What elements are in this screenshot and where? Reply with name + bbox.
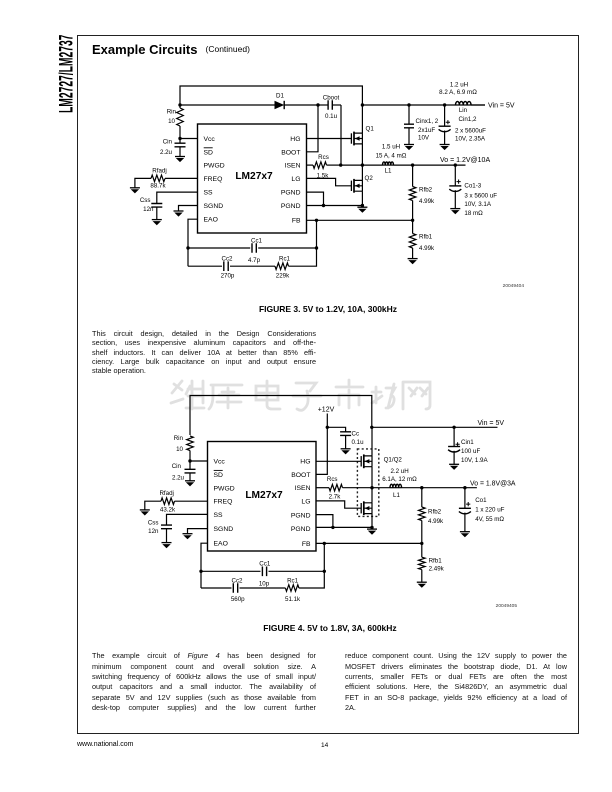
wire SGND to ground (fig4) [188,529,208,534]
svg-text:4.7p: 4.7p [248,257,261,264]
svg-text:229k: 229k [276,272,290,279]
ground for Cin1 (fig4) [449,463,459,465]
capacitor Cc1 4.7p (fig3) [188,247,250,249]
svg-text:Rfadj: Rfadj [159,490,173,497]
svg-text:51.1k: 51.1k [285,596,301,603]
wire input rail to Vin (fig3) [362,104,485,106]
wire Q1 source to SW (fig4) [371,467,373,488]
svg-text:PGND: PGND [281,203,301,210]
watermark chinese text weiku dianzi shichang wang [171,380,430,410]
svg-text:10: 10 [176,446,183,453]
node input/Rin junction (fig3) [178,103,181,106]
node FB/comp junction (fig3) [315,219,318,222]
ground for Rfadj (fig3) [130,187,140,189]
ground power ground (fig4) [367,528,377,530]
node FB/comp junction (fig4) [323,542,326,545]
wire Q2 drain (fig4) [371,488,373,503]
svg-text:Rcs: Rcs [327,476,338,483]
resistor Rcs 1.5k on ISEN (fig3) [307,164,314,166]
ground for Rfadj (fig4) [140,509,150,511]
svg-text:10: 10 [168,118,175,125]
ground for Cin (fig3) [175,156,185,158]
capacitor Cc1 10p (fig4) [201,570,261,572]
svg-text:18 mΩ: 18 mΩ [464,210,483,217]
page frame border [77,35,580,734]
wire Q2 drain (fig3) [361,165,363,180]
wire SGND to ground (fig3) [179,206,198,212]
wire EAO to compensation (fig4) [201,543,208,588]
wire Cboot to switch node [340,105,342,165]
wire EAO to compensation (fig3) [188,219,198,266]
resistor Rfb2 4.99k (fig4) [421,488,423,507]
wire BOOT riser to pin [307,105,319,152]
svg-text:ISEN: ISEN [295,485,311,492]
ground for Cin (fig4) [185,480,195,482]
ground for Co1-3 (fig3) [450,208,460,210]
node Q2 source ground (fig4) [370,526,373,529]
svg-text:2 x 5600uF: 2 x 5600uF [455,128,486,135]
svg-text:LM2727/LM2737: LM2727/LM2737 [56,35,77,113]
wire switch node (fig3) [341,164,383,166]
wire D1 cathode to BOOT node [284,104,318,106]
transistor Q1 (fig4) [360,456,362,466]
resistor Rin 10 (fig4) [187,436,194,451]
resistor Rc1 229k (fig3) [275,263,289,270]
wire LG to Q2 gate (fig4) [316,501,361,508]
svg-text:SS: SS [214,512,224,519]
node PGND jog (fig3) [322,204,325,207]
svg-text:100 uF: 100 uF [461,448,480,455]
ground for Css (fig4) [162,542,172,544]
wire PGND upper jog (fig4) [316,515,333,528]
svg-text:Q1/Q2: Q1/Q2 [384,456,403,463]
resistor Rfadj 88.7k (fig3) [165,177,198,179]
svg-text:Co1-3: Co1-3 [464,182,481,189]
wire Vo output (fig4) [402,487,477,489]
svg-text:SGND: SGND [214,526,234,533]
svg-text:270p: 270p [221,272,235,279]
svg-text:FB: FB [292,217,301,224]
svg-text:PWGD: PWGD [214,485,235,492]
footer url [77,741,133,748]
ground for SGND (fig3) [174,210,184,212]
svg-text:10V, 1.9A: 10V, 1.9A [461,457,488,464]
svg-text:Css: Css [148,519,159,526]
resistor Rcs 2.7k on ISEN (fig4) [316,487,329,489]
capacitor Css 12n (fig4) [167,514,208,525]
svg-text:L1: L1 [393,492,400,499]
node Cinx tap (fig3) [407,103,410,106]
svg-text:43.2k: 43.2k [160,506,176,513]
inductor Lin 1.2uH (fig3) [456,102,472,106]
capacitor Cin 2.2u (fig4) [189,461,191,469]
wire Vcc pin (fig3) [180,138,198,140]
figure 4 caption [77,623,583,633]
IC U2 LM27x7 (fig4) [208,442,317,552]
wire input rail top loop (fig3) [180,86,362,105]
node comp junction at Cc1 right (fig3) [315,246,318,249]
figure 3 caption [77,304,579,314]
svg-text:LG: LG [301,498,310,505]
svg-text:Rfadj: Rfadj [152,168,166,175]
svg-text:Cin1,2: Cin1,2 [459,116,477,123]
svg-text:Rfb1: Rfb1 [429,558,443,565]
svg-text:Rin: Rin [167,109,177,116]
svg-text:FREQ: FREQ [214,499,233,506]
wire Q1 source to switch node (fig3) [361,144,363,165]
svg-text:Q2: Q2 [365,175,374,182]
wire D1/Cboot branch from input rail (fig3) [180,104,275,106]
svg-text:88.7k: 88.7k [150,183,166,190]
wire Vin rail (fig4) [372,426,498,428]
capacitor Cc 0.1u (fig4) [327,427,345,432]
wire SW to L1 (fig4) [372,487,390,489]
diode D1 [275,101,285,109]
node Vin rail (fig4) [370,426,373,429]
ground for Rfb1 (fig3) [408,258,418,260]
wire LG to Q2 gate (fig3) [307,178,352,185]
node Cin1,2 tap (fig3) [443,103,446,106]
svg-text:2.2 uH: 2.2 uH [390,468,408,475]
ground power ground (fig3) [357,206,367,208]
svg-text:SD: SD [214,472,224,479]
wire Q1 drain (fig4) [371,427,373,456]
svg-text:10V: 10V [418,135,430,142]
svg-text:0.1u: 0.1u [352,439,365,446]
node Vcc/Cin junction (fig4) [188,459,191,462]
capacitor Cc2 270p (fig3) [188,265,222,267]
wire Vin top loop from Rin (fig4) [190,396,372,436]
svg-text:Cc1: Cc1 [259,560,271,567]
node Co1-3 tap (fig3) [454,163,457,166]
svg-text:1.2 uH: 1.2 uH [450,82,468,89]
svg-text:EAO: EAO [204,217,218,224]
wire Q2 source to ground (fig4) [371,514,373,528]
svg-text:Cc2: Cc2 [231,577,243,584]
svg-text:Vcc: Vcc [204,136,216,143]
svg-text:SS: SS [204,190,214,197]
svg-text:12n: 12n [148,528,159,535]
svg-text:BOOT: BOOT [291,472,310,479]
capacitor Cboot 0.1u [318,104,328,106]
svg-text:Rfb1: Rfb1 [419,233,433,240]
svg-text:2.7k: 2.7k [329,493,342,500]
svg-text:10V, 3.1A: 10V, 3.1A [464,201,491,208]
svg-text:0.1u: 0.1u [325,113,338,120]
section title Example Circuits [92,42,198,57]
svg-text:FREQ: FREQ [204,176,223,183]
paragraph about figure 3 [92,330,316,338]
svg-text:Rin: Rin [174,435,184,442]
svg-text:10p: 10p [259,580,270,587]
resistor Rfadj 43.2k (fig4) [175,500,208,502]
wire FB (fig3) [307,219,413,221]
svg-text:Vcc: Vcc [214,459,226,466]
svg-text:D1: D1 [276,93,284,100]
wire +12V rail to BOOT (fig4) [316,414,327,475]
svg-text:SGND: SGND [204,203,224,210]
svg-text:Cc1: Cc1 [251,237,263,244]
svg-text:8.2 A, 6.9 mΩ: 8.2 A, 6.9 mΩ [439,89,477,96]
capacitor Co1-3 3x5600uF (fig3) [454,165,456,186]
svg-text:PGND: PGND [291,512,311,519]
svg-text:FB: FB [302,541,311,548]
bottom text right column [345,652,567,660]
capacitor Css 12n (fig3) [157,192,198,203]
svg-text:2.49k: 2.49k [429,566,445,573]
node +12V / Cc tap (fig4) [326,426,329,429]
svg-text:Rc1: Rc1 [279,255,291,262]
inductor L1 2.2uH (fig4) [390,484,402,488]
wire HG to Q1 gate (fig3) [307,138,352,140]
svg-text:LM27x7: LM27x7 [245,490,283,501]
resistor Rin 10 (fig3) [179,105,181,108]
svg-text:Cinx1, 2: Cinx1, 2 [416,118,439,125]
ground for Rfb1 (fig4) [417,581,427,583]
ground for Css (fig3) [152,219,162,221]
transistor Q2 (fig3) [350,181,352,191]
ground for Cin1,2 (fig3) [440,144,450,146]
svg-text:Cin: Cin [163,138,173,145]
svg-text:Cin1: Cin1 [461,439,474,446]
svg-text:LG: LG [291,176,300,183]
svg-text:BOOT: BOOT [281,149,300,156]
transistor Q1 (fig3) [350,133,352,143]
capacitor Cc2 560p (fig4) [201,587,232,589]
node Q1 drain / input rail (fig3) [361,103,364,106]
svg-text:Cc: Cc [352,430,360,437]
wire Q2 source to PGND rail (fig3) [361,191,363,205]
svg-text:Vin = 5V: Vin = 5V [478,420,505,427]
wire Vo output (fig3) [394,164,466,166]
svg-text:PGND: PGND [281,190,301,197]
wire HG to Q1 gate (fig4) [316,460,361,462]
svg-text:2.2u: 2.2u [160,149,173,156]
node EAO/Cc1 branch (fig3) [186,246,189,249]
sidebar part number LM2727/LM2737 [56,35,77,113]
svg-text:PGND: PGND [291,526,311,533]
figure 4 doc id [437,604,517,609]
capacitor Co1 220uF (fig4) [464,488,466,509]
node FB/divider junction (fig3) [411,219,414,222]
svg-text:LM27x7: LM27x7 [235,171,273,182]
footer page number 14 [321,742,328,749]
svg-text:3 x 5600 uF: 3 x 5600 uF [464,193,497,200]
svg-text:L1: L1 [385,168,392,175]
node SW at Q1/Q2 (fig4) [370,486,373,489]
node SW at Q1/Q2 (fig3) [361,163,364,166]
svg-text:PWGD: PWGD [204,163,225,170]
node FB/divider junction (fig4) [420,542,423,545]
wire PGND rail (fig4) [316,526,372,528]
svg-text:4V, 55 mΩ: 4V, 55 mΩ [475,516,504,523]
IC U1 LM27x7 (fig3) [198,124,307,233]
ground for Cinx (fig3) [404,144,414,146]
node Vo/Rfb2 tap (fig4) [420,486,423,489]
svg-text:+12V: +12V [318,407,335,414]
svg-text:Cboot: Cboot [323,94,340,101]
resistor Rfb1 4.99k (fig3) [412,220,414,233]
svg-text:Vin = 5V: Vin = 5V [488,102,515,109]
capacitor Cin 2.2u (fig3) [179,139,181,144]
capacitor Cin1 100uF (fig4) [453,427,455,446]
wire Vcc pin (fig4) [190,460,208,462]
node EAO/Cc1 branch (fig4) [199,570,202,573]
svg-text:4.99k: 4.99k [419,245,435,252]
svg-text:1.5 uH: 1.5 uH [382,143,400,150]
svg-text:10V, 2.35A: 10V, 2.35A [455,136,486,143]
svg-text:Cin: Cin [172,463,182,470]
node Vcc/Cin junction (fig3) [178,137,181,140]
svg-text:Q1: Q1 [366,125,375,132]
resistor Rfb1 2.49k (fig4) [421,543,423,557]
wire Q1 drain (fig3) [361,105,363,133]
svg-text:Rfb2: Rfb2 [419,186,433,193]
svg-text:4.99k: 4.99k [419,198,435,205]
transistor Q2 (fig4) [360,503,362,513]
node PGND jog (fig4) [331,526,334,529]
svg-text:Vo = 1.2V@10A: Vo = 1.2V@10A [440,157,490,164]
svg-text:Vo = 1.8V@3A: Vo = 1.8V@3A [470,480,516,487]
wire PGND upper jog (fig3) [307,192,324,205]
svg-text:2x1uF: 2x1uF [418,127,435,134]
svg-text:15 A, 4 mΩ: 15 A, 4 mΩ [376,153,407,160]
svg-text:1 x 220 uF: 1 x 220 uF [475,507,504,514]
svg-text:Cc2: Cc2 [221,255,233,262]
svg-text:Rfb2: Rfb2 [428,509,442,516]
svg-text:2.2u: 2.2u [172,474,185,481]
svg-text:12n: 12n [143,206,154,213]
bottom text left column [92,652,316,660]
inductor L1 1.5uH (fig3) [383,162,394,165]
svg-text:560p: 560p [231,596,245,603]
ground for Co1 (fig4) [460,531,470,533]
figure 3 doc id [444,284,524,289]
capacitor Cin1,2 2x5600uF (fig3) [444,105,446,126]
wire PGND rail (fig3) [307,205,363,207]
svg-text:SD: SD [204,149,214,156]
svg-text:Css: Css [140,197,151,204]
node Cboot/switch junction (fig3) [339,163,342,166]
resistor Rfb2 4.99k (fig3) [412,165,414,186]
svg-text:Rc1: Rc1 [287,577,299,584]
svg-text:4.99k: 4.99k [428,518,444,525]
svg-text:Co1: Co1 [475,497,487,504]
resistor Rc1 51.1k (fig4) [285,585,299,592]
dual FET dashed outline Q1/Q2 (fig4) [357,449,378,517]
ground for Cc (fig4) [341,448,351,450]
svg-text:HG: HG [290,136,300,143]
node Co1 tap (fig4) [463,486,466,489]
node Cin1 tap (fig4) [452,426,455,429]
ground for SGND (fig4) [183,533,193,535]
wire FB (fig4) [316,542,422,544]
svg-text:Rcs: Rcs [318,154,329,161]
svg-text:ISEN: ISEN [285,163,301,170]
node Q2 source ground (fig3) [361,204,364,207]
node Vo/Rfb2 tap (fig3) [411,163,414,166]
capacitor Cinx1,2 2x1uF (fig3) [408,105,410,124]
node comp junction at Cc1 right (fig4) [323,570,326,573]
svg-text:Lin: Lin [459,107,468,114]
svg-text:6.1A, 12 mΩ: 6.1A, 12 mΩ [382,476,417,483]
svg-text:HG: HG [300,459,310,466]
node BOOT/Cboot junction [316,103,319,106]
svg-text:EAO: EAO [214,541,228,548]
